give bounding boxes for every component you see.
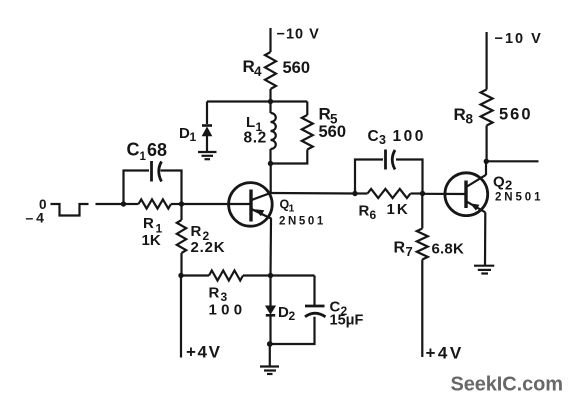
wire: node H to R7 (421, 194, 423, 229)
svg-text:6.8K: 6.8K (432, 241, 465, 258)
wire: R6 to node H (411, 192, 423, 194)
wire: node B to R2 (180, 204, 182, 220)
svg-text:C: C (368, 128, 379, 145)
svg-text:R: R (394, 240, 406, 257)
svg-text:2: 2 (289, 309, 296, 323)
svg-text:R: R (209, 285, 220, 302)
svg-text:R: R (454, 105, 466, 124)
wire: node E horizontal rail (207, 100, 307, 102)
resistor R2 (177, 220, 186, 253)
wire: node J to Q2 collector (485, 161, 487, 175)
wire: node C to R3 (181, 274, 209, 276)
wire: C1 right riser (161, 171, 182, 205)
wire: node G to R6 (355, 192, 368, 194)
node I (D2/C2 bottom junction) (267, 341, 273, 347)
wire: C3 left riser (355, 160, 383, 194)
svg-text:4: 4 (254, 64, 262, 79)
svg-text:R: R (143, 215, 154, 232)
wire: node E to L1 (269, 102, 271, 114)
svg-text:7: 7 (406, 244, 413, 259)
ground (D2/C2) (260, 367, 279, 375)
svg-text:−10 V: −10 V (277, 27, 320, 43)
svg-text:2.2K: 2.2K (191, 239, 226, 256)
wire: collector rail Q1 to node G (271, 192, 355, 195)
svg-text:6: 6 (370, 208, 377, 222)
wire: Q2 emitter to ground (484, 212, 486, 265)
svg-text:C: C (127, 140, 140, 160)
svg-text:Q: Q (493, 174, 505, 191)
svg-text:L: L (246, 114, 255, 131)
wire: input to node A (96, 203, 124, 205)
wire: node B to Q1 base (182, 203, 250, 205)
svg-text:R: R (191, 223, 202, 240)
svg-text:+4V: +4V (186, 343, 222, 362)
transistor Q1 (229, 183, 273, 227)
svg-text:560: 560 (319, 123, 347, 141)
svg-text:–4: –4 (26, 210, 47, 226)
wire: C2 bottom riser (270, 317, 315, 344)
diode D1 (202, 126, 212, 152)
wire: node H to Q2 base (423, 193, 465, 195)
node D (emitter/R3/D2 junction) (268, 273, 273, 278)
svg-text:8: 8 (466, 112, 474, 127)
node H (R6/C3/R7/base junction) (420, 191, 425, 196)
wire: R5 bottom riser (271, 150, 308, 164)
transistor Q2 (445, 173, 488, 216)
node C (R2/R3/+4V junction) (178, 273, 183, 278)
wire: +4V rail (left) (180, 276, 182, 358)
svg-text:2N501: 2N501 (495, 192, 543, 204)
resistor R7 (417, 229, 428, 260)
svg-text:−10 V: −10 V (495, 31, 543, 47)
wire: C3 right riser (396, 160, 423, 194)
wire: R4 to node E (269, 89, 271, 102)
node F (collector junction) (268, 161, 273, 166)
svg-text:2N501: 2N501 (279, 215, 326, 227)
wire: Q1 emitter down to node D (269, 219, 272, 276)
wire: R5 top riser (306, 102, 308, 116)
svg-text:D: D (179, 125, 190, 142)
wire: C1 left riser (124, 171, 150, 205)
svg-text:+4V: +4V (426, 344, 464, 363)
svg-text:R: R (243, 57, 255, 76)
wire: node F to Q1 collector corner (270, 164, 272, 194)
node G (C3/R6 left junction) (352, 191, 357, 196)
svg-text:1K: 1K (387, 201, 410, 218)
svg-text:1K: 1K (142, 232, 161, 249)
capacitor C3 (386, 150, 396, 170)
wire: top -10V feed to R4 (269, 28, 271, 52)
wire: D1 riser (206, 102, 208, 125)
svg-text:560: 560 (499, 106, 533, 124)
resistor R6 (368, 189, 411, 198)
resistor R1 (139, 199, 172, 208)
svg-text:560: 560 (283, 59, 311, 77)
inductor L1 (271, 113, 276, 149)
wire: node D to C2 top (271, 274, 315, 276)
wire: C2 top riser (313, 276, 315, 307)
svg-text:100: 100 (393, 128, 426, 145)
resistor R5 (302, 115, 313, 150)
wire: R7 to +4V rail (right) (421, 260, 423, 358)
svg-text:100: 100 (209, 302, 247, 319)
resistor R3 (209, 271, 243, 281)
wire: R3 to node D (243, 274, 271, 276)
svg-text:8.2: 8.2 (244, 130, 267, 147)
wire: top right -10V feed to R8 (486, 32, 488, 90)
wire: R1 to node B (171, 203, 182, 205)
node E (R4/D1/L1/R5 junction) (268, 99, 273, 104)
node A (input junction) (121, 201, 126, 206)
wire: R2 to node C (180, 253, 182, 276)
svg-text:1: 1 (140, 151, 147, 163)
svg-text:R: R (319, 105, 331, 124)
svg-text:1: 1 (190, 130, 197, 144)
input pulse waveform (51, 204, 89, 216)
svg-text:2: 2 (505, 178, 512, 193)
wire: output rail (486, 160, 538, 162)
svg-text:R: R (359, 203, 370, 220)
svg-text:68: 68 (147, 140, 167, 160)
diode D2 (266, 276, 275, 345)
svg-text:1: 1 (289, 203, 295, 215)
wire: node A to R1 (124, 203, 139, 205)
wire: node I to ground (269, 344, 271, 367)
wire: L1 to node F (269, 149, 271, 164)
capacitor C2 (305, 306, 326, 317)
svg-text:SeekIC.com: SeekIC.com (451, 374, 563, 396)
resistor R8 (481, 90, 493, 126)
svg-text:15μF: 15μF (330, 313, 364, 329)
ground (D1) (198, 152, 217, 159)
svg-text:3: 3 (379, 133, 386, 147)
wire: R8 to node J (486, 126, 488, 162)
svg-text:D: D (278, 304, 289, 321)
ground (Q2 emitter) (474, 266, 494, 274)
resistor R4 (265, 52, 276, 89)
capacitor C1 (152, 161, 162, 182)
node B (R1/R2/C1/base junction) (179, 201, 184, 206)
node J (R8/collector/output junction) (484, 159, 489, 164)
